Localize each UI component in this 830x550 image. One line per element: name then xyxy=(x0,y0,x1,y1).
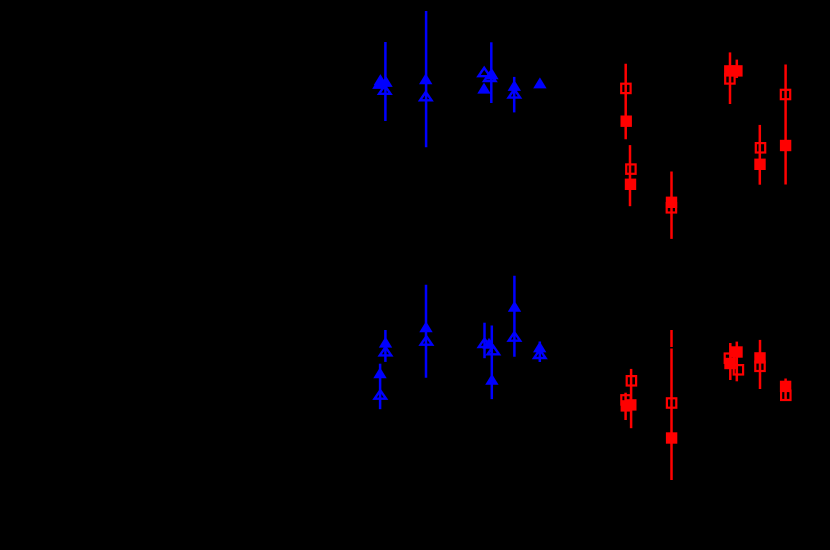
marker fill sq B1a xyxy=(621,400,632,411)
error bar eb red T1a xyxy=(624,64,627,140)
error bar eb blue T1 xyxy=(384,42,387,121)
marker fill sq T4 xyxy=(754,159,765,170)
error bar eb red T1b xyxy=(629,145,632,206)
marker fill sq T5 xyxy=(780,140,791,151)
bottom panel: red square series xyxy=(621,330,792,480)
marker open sq B1a xyxy=(627,376,636,385)
top panel: blue triangle series xyxy=(372,11,546,147)
error bar eb blue B3b xyxy=(491,326,494,400)
error bar eb blue B5 xyxy=(539,342,542,363)
error bar eb blue B1b xyxy=(379,364,382,410)
marker open sq T1b xyxy=(626,164,635,173)
marker fill sq B1b xyxy=(625,399,636,410)
marker fill tri B1a xyxy=(379,337,392,348)
marker fill sq T1a xyxy=(621,116,632,127)
marker open sq B3a xyxy=(725,354,734,363)
marker open sq B2 xyxy=(667,398,676,407)
marker fill tri B4 xyxy=(508,301,521,312)
marker open sq T3 xyxy=(725,74,734,83)
marker open sq B3b xyxy=(734,365,743,374)
marker fill tri B3a xyxy=(482,338,495,349)
bottom panel: blue triangle series xyxy=(373,276,546,410)
marker fill tri T2 xyxy=(419,73,432,84)
error bar eb red B1b xyxy=(624,393,627,420)
marker fill sq T1b xyxy=(625,179,636,190)
error bar eb blue T2 xyxy=(425,11,428,147)
top panel: red square series xyxy=(621,52,792,239)
marker fill tri B1b xyxy=(373,367,386,378)
marker fill tri T1c xyxy=(372,78,385,89)
marker open sq B4 xyxy=(755,362,764,371)
marker open tri B3a xyxy=(479,339,491,347)
error bar eb blue B2 xyxy=(425,285,428,378)
error bar eb red T2 xyxy=(670,172,673,239)
error bar eb blue T4 xyxy=(513,77,516,113)
error bar eb red B5 xyxy=(784,379,787,402)
error bar eb red T3b xyxy=(736,60,739,78)
marker open tri B2 xyxy=(421,336,433,344)
marker fill tri B3b xyxy=(485,374,498,385)
marker fill sq T3b xyxy=(731,65,742,76)
marker fill tri T3a xyxy=(485,68,498,79)
marker open tri T2 xyxy=(420,92,432,100)
error bar eb red B4 xyxy=(759,340,762,389)
marker open tri T1 xyxy=(379,85,391,93)
error bar eb red B2a xyxy=(670,330,673,347)
marker open sq B1b xyxy=(621,395,630,404)
error bar eb red B3b xyxy=(736,342,739,382)
error bar eb red T4 xyxy=(759,125,762,185)
marker open tri B1a xyxy=(380,347,392,355)
error bar eb red B1a xyxy=(630,369,633,428)
marker fill tri T1b xyxy=(379,76,392,87)
marker open tri T4 xyxy=(509,89,521,97)
marker fill sq B5 xyxy=(780,381,791,392)
marker fill sq T3a xyxy=(724,65,735,76)
marker fill tri T4 xyxy=(508,80,521,91)
marker fill tri T1a xyxy=(374,74,387,85)
marker open tri T3a xyxy=(478,68,490,76)
marker fill sq T2 xyxy=(666,197,677,208)
marker open sq T2 xyxy=(667,203,676,212)
marker open sq T4 xyxy=(756,143,765,152)
error bar eb red B3a xyxy=(729,343,732,380)
marker open tri T3b xyxy=(484,73,496,81)
marker open tri B3b xyxy=(488,346,500,354)
error bar eb red T5 xyxy=(784,65,787,185)
error bar eb red T3a xyxy=(729,52,732,104)
marker fill sq B3b xyxy=(724,358,735,369)
marker fill tri T3b xyxy=(477,83,490,94)
marker fill tri T5 xyxy=(533,77,546,88)
marker open tri B4 xyxy=(509,332,521,340)
marker fill tri B2 xyxy=(419,321,432,332)
error bar eb red B2b xyxy=(670,349,673,481)
error bar eb blue T3 xyxy=(490,42,493,103)
marker fill sq B3a xyxy=(731,346,742,357)
error bar eb blue B4 xyxy=(513,276,516,357)
marker open sq B5 xyxy=(781,391,790,400)
error bar eb blue B1a xyxy=(384,330,387,362)
marker fill sq B2 xyxy=(666,432,677,443)
marker open tri B5 xyxy=(534,350,546,358)
marker open sq T1a xyxy=(621,84,630,93)
marker open tri B1b xyxy=(375,390,387,398)
marker open sq T5 xyxy=(781,90,790,99)
error bar eb blue B3a xyxy=(483,323,486,359)
marker fill sq B4 xyxy=(754,352,765,363)
marker fill tri B5 xyxy=(533,341,546,352)
